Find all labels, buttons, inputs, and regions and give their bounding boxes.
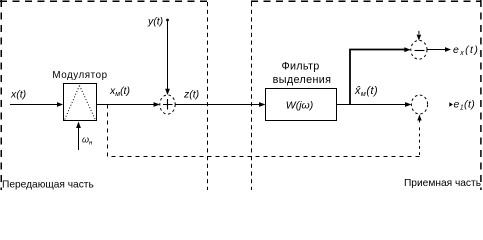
svg-text:y(t): y(t) (147, 16, 163, 28)
dashed boundary: outer frame top edge (transmitting side) (0, 0, 208, 2)
wire: dashed feedback rise into lower comparator (419, 125, 421, 155)
wire: small stub into upper comparator from top (418, 31, 420, 34)
dashed boundary: partition line left of receiving part (251, 2, 253, 190)
wire: upper comparator output (427, 49, 447, 51)
wire: adder to filter (176, 104, 261, 106)
svg-text:x̂м(t): x̂м(t) (354, 85, 378, 98)
svg-text:z(t): z(t) (183, 89, 199, 101)
modulator block U1 (64, 84, 97, 121)
wire: modulator output to adder (97, 104, 156, 106)
dashed boundary: partition line right of transmitting part (207, 2, 209, 190)
svg-text:Модулятор: Модулятор (52, 70, 107, 81)
node: start dot of y(t) line (166, 19, 169, 22)
wire: small stub into lower comparator from below (419, 120, 421, 123)
dashed boundary: outer frame right edge (480, 0, 482, 190)
wire: branch up to upper comparator (350, 50, 406, 105)
svg-text:xм(t): xм(t) (109, 85, 130, 98)
svg-text:x(t): x(t) (10, 89, 26, 101)
svg-text:Приемная часть: Приемная часть (404, 178, 481, 189)
wire: carrier input arrow (78, 127, 80, 150)
wire: y(t) down into adder (167, 20, 169, 90)
svg-text:Фильтр: Фильтр (281, 61, 319, 73)
dashed boundary: outer frame top edge (receiving side) (251, 0, 482, 2)
wire: x(t) input line (10, 104, 58, 106)
svg-text:W(jω): W(jω) (286, 100, 313, 112)
svg-text:Передающая часть: Передающая часть (2, 180, 94, 191)
modulator triangle symbol (dotted) (65, 86, 96, 121)
dashed boundary: outer frame left edge (0, 0, 2, 190)
svg-text:выделения: выделения (273, 74, 332, 86)
adder sum junction (dashed circle with plus) (160, 95, 175, 114)
svg-text:e1(t): e1(t) (454, 99, 476, 112)
wire: filter output to lower comparator (337, 104, 407, 106)
node e1(t) output arrowhead and label (449, 102, 453, 107)
wire: dashed feedback from xm node along bottom (108, 105, 420, 157)
filter block U2 (266, 89, 337, 121)
lower comparator (dashed circle) (411, 95, 427, 114)
upper comparator (dashed circle with minus) (411, 40, 427, 59)
svg-text:eх(t): eх(t) (453, 44, 479, 57)
